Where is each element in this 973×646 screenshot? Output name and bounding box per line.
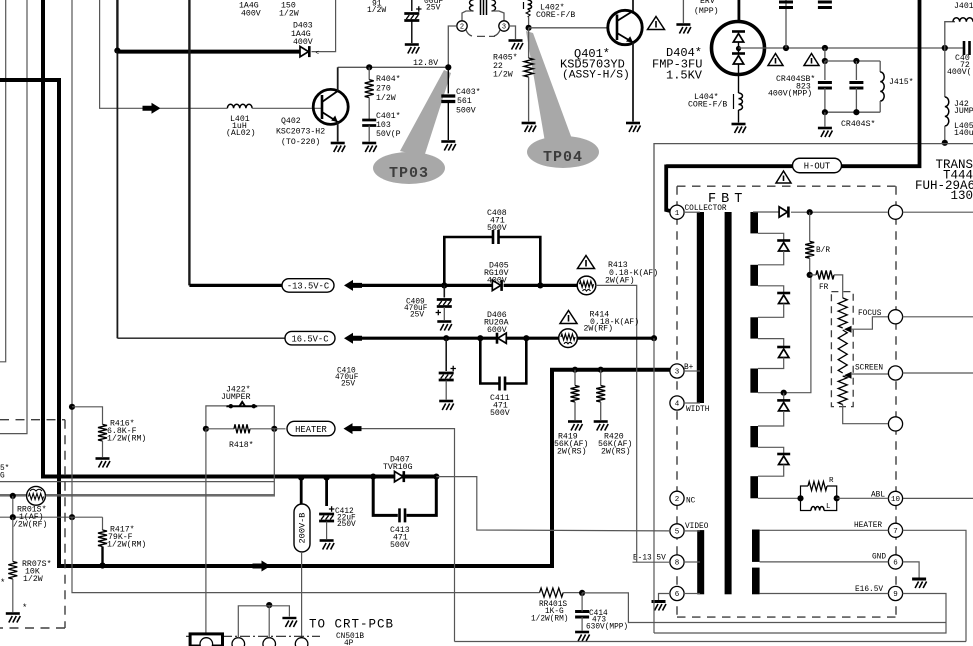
capacitor C401 [362,120,376,126]
wire EHT output line [739,47,965,49]
wire to R418 [206,428,234,430]
svg-text:400V: 400V [293,38,313,47]
wire C411 right leg (thick) [505,338,526,383]
arrow HEATER [344,423,362,434]
svg-text:R404*: R404* [376,74,401,84]
wire E16.5V return [582,593,946,623]
FBT secondary winding segment 5 [750,426,758,447]
wire heater loop right [903,530,967,641]
wire to R420 [600,370,602,386]
pin 7 HEATER [888,523,902,537]
svg-text:C401*: C401* [376,111,401,121]
wire R419 to ground [574,402,576,420]
wire R420 to ground [600,402,602,420]
svg-text:TVR10G: TVR10G [383,463,413,472]
svg-text:25V: 25V [341,381,355,389]
wire H-OUT to pin1 [666,165,670,212]
svg-text:7: 7 [893,528,898,536]
wire D403 cathode up [312,0,336,52]
wire 12V feed (thick) to D403 [117,50,300,54]
svg-text:561: 561 [457,97,472,106]
wire RR07S to ground [12,579,14,612]
svg-text:CORE-F/B: CORE-F/B [688,100,727,110]
wire R404 to C401 [368,98,370,119]
svg-text:-13.5V-C: -13.5V-C [287,282,329,292]
capacitor C413 [400,508,406,522]
wire B+ rail (thick) [0,80,670,566]
wire D-c to seg4 [758,358,784,369]
pin 8 FBT [670,555,684,569]
wire rail R416-R417 [71,407,73,517]
wire C412 to ground [326,522,328,540]
screen wiper arrow [844,372,852,379]
junction C414 [579,590,585,596]
wire GND pin to ground [903,562,920,578]
resistor R417 [98,530,107,547]
svg-text:1/2W: 1/2W [23,574,43,584]
capacitor C409 [436,300,452,316]
inductor L402 [523,2,525,9]
net label 16.5V-C [285,331,335,345]
warning triangle Q401 [648,17,665,30]
junction connector [266,602,272,608]
svg-text:400V(: 400V( [947,67,972,77]
pin 2 FBT [670,491,684,505]
wire to B/R [809,212,811,241]
svg-text:R418*: R418* [229,440,254,450]
resistor R419 [571,386,580,403]
diode D405 [492,280,501,291]
ground C410 [439,401,454,410]
ground C403 [441,142,456,151]
ground R416 [96,459,111,468]
wire node to R405 [528,28,530,58]
ground Q401 emitter [626,123,641,132]
wire to J401 [945,22,955,48]
wire connector to ground [269,606,289,617]
wire rail to R416 [71,0,73,407]
svg-text:*: * [0,578,5,588]
wire heater return to RR01S [0,429,274,495]
junction R404 top [366,64,372,70]
diode D403 [300,46,309,57]
warning triangle H-OUT [776,171,791,183]
wire VIDEO to pin5 [436,477,670,531]
wire heater tap [760,529,889,531]
junction J401 node [942,45,948,51]
capacitor top-b [818,2,832,8]
svg-text:500V: 500V [456,107,476,116]
pin FOCUS [888,310,902,324]
wire pin8 E-13.5V [633,561,671,563]
fusible resistor R414 [559,329,578,348]
junction R417 top [69,514,75,520]
junction C409/C408 [441,282,447,288]
wire heater loop bottom [455,641,967,643]
svg-text:500V: 500V [487,224,507,233]
FBT secondary winding segment 2 [750,265,758,286]
junction R418 left [203,426,209,432]
resistor RR401S [540,588,564,597]
connector pin 1 [200,638,213,646]
FBT core [725,212,732,594]
pin 6 FBT [670,586,684,600]
wire R418 to pill [250,428,286,430]
junction TP03 / C403 [445,64,451,70]
wire 200V-B feed rail (thick) [43,0,436,477]
svg-text:3: 3 [502,24,506,32]
wire to C412 [325,478,328,506]
svg-text:200V-B: 200V-B [298,513,308,544]
wire pin3 to winding [492,11,505,22]
wire e16.5 tap [760,593,889,595]
wire 16.5V row right (thick) [506,337,558,340]
wire seg2-seg3 tap [758,286,784,293]
svg-text:E16.5V: E16.5V [855,586,883,594]
wire to C409 [443,285,445,297]
svg-text:8: 8 [675,560,680,568]
inductor L (ABL filter) [801,498,812,510]
wire D407 cathode (thick) [406,475,436,478]
ground GND pin [912,579,927,588]
FBT primary winding bar [697,212,704,403]
junction CR404 bottom-a [822,109,828,115]
wire pin9 loop [654,594,946,634]
capacitor CR404S [849,83,863,89]
warning triangle EHT-2 [804,54,819,66]
wire to EHT pin [791,211,888,213]
pin 1 FBT [670,205,684,219]
wire to C410 [445,338,447,371]
ground ERV [676,25,691,34]
capacitor CR404SB [818,83,832,89]
junction FR node [807,272,813,278]
svg-text:R405*: R405* [493,53,518,63]
resistor R420 [596,386,605,403]
svg-text:B/R: B/R [816,247,830,255]
FBT dashed outline [677,186,896,617]
junction 200V-B [298,475,304,481]
resistor B/R [805,241,814,258]
wire pin3 to winding [684,370,700,372]
svg-text:2W(RS): 2W(RS) [601,447,630,457]
svg-text:NC: NC [686,498,696,506]
svg-text:R: R [829,477,834,485]
ground R419 [568,422,583,431]
wire 12.8V to C403 [447,67,449,93]
wire L401 to Q402 base [252,107,322,109]
junction RR01S-a [10,493,16,499]
wire Q401 emitter [632,43,634,122]
transformer T401 core [481,0,487,15]
ground pin6 [652,602,667,611]
junction C410 [443,335,449,341]
wire Q402 collector [337,67,339,91]
wire C413 right leg (thick) [407,477,437,516]
FBT heater winding segment a [752,530,760,562]
FBT secondary winding segment 6 [750,476,758,498]
arrow 16.5V [344,333,362,344]
svg-text:6: 6 [893,560,898,568]
capacitor top-a [785,0,787,48]
junction C412 [324,475,330,481]
resistor FR [816,270,834,279]
pin 6 GND [888,555,902,569]
junction 12V rail [114,48,120,54]
wire D-e to seg6 [758,465,784,477]
junction D404 tap [736,46,741,51]
FBT secondary winding segment 1 [750,212,758,233]
svg-text:2W(RF): 2W(RF) [584,324,613,334]
ground RR07S [6,614,20,623]
svg-text:103: 103 [376,121,391,130]
wire D-a to seg2 [758,251,784,265]
svg-text:H-OUT: H-OUT [804,162,830,172]
wire D-b to seg3 [758,304,784,318]
wire H.DRIVE input [100,0,143,108]
capacitor C410 [439,366,456,380]
pin 10 ABL [888,491,902,505]
wire arrow to L401 [160,107,227,109]
svg-text:(MPP): (MPP) [694,6,719,16]
junction D407 right [433,474,439,480]
svg-text:400V(MPP): 400V(MPP) [768,89,812,99]
junction E16.5 rail top [942,140,948,146]
wire to R419 [574,370,576,386]
svg-text:1/2W: 1/2W [493,70,513,80]
wire C403 to ground [447,102,449,140]
svg-text:140u: 140u [954,129,973,138]
wire L402 to node [528,17,530,28]
ground Q402 emitter [331,143,346,152]
connector pin 4 [295,638,308,646]
svg-text:HEATER: HEATER [854,522,882,530]
junction D407 left [370,474,376,480]
wire rail tail [653,338,655,633]
wire ABL out [903,497,973,499]
pin SCREEN [888,366,902,380]
svg-text:4P: 4P [344,640,354,646]
junction CR404 bottom-b [853,109,859,115]
svg-text:9: 9 [893,591,898,599]
transistor Q401 [608,10,642,44]
inductor L405 / J421 [945,97,949,126]
wire EHT to D404 [738,0,741,22]
wire to CR404SB node [824,48,826,61]
wire into C414 [581,593,583,612]
wire RR401S to C414 [563,592,582,594]
dashed shield T401 [466,30,500,36]
ground R420 [594,422,609,431]
wire CR404S to bottom [855,88,857,112]
svg-text:FOCUS: FOCUS [858,310,882,318]
wire FR to pot [834,275,843,298]
ground connector [282,618,297,627]
wire pot bottom [843,405,888,424]
ground CR404 [818,128,833,137]
fusible resistor RR01S [27,486,46,505]
wire 12V rail to 16.5V row [116,51,118,339]
net label 200V-B [294,504,310,552]
svg-text:10: 10 [891,496,901,504]
inductor L401 [227,104,252,108]
pin 3 T401 [499,21,509,32]
wire J401 node to L405 [944,48,946,97]
wire -13.5V row left (thick) [189,284,285,287]
wire SCREEN out [903,372,973,374]
junction RR07S top [10,514,16,520]
svg-text:1/2W(RM): 1/2W(RM) [107,434,146,444]
wire CRT return [72,517,540,592]
resistor focus pot upper [838,298,847,328]
focus wiper arrow [844,326,852,333]
svg-text:16.5V-C: 16.5V-C [292,334,329,344]
svg-text:JUMP: JUMP [954,107,973,116]
wire left rail B [0,0,27,434]
wire C414 to ground [581,617,583,631]
resistor RR07S [8,562,17,580]
wire R417 to bus [101,547,103,566]
svg-text:GND: GND [872,554,886,562]
svg-text:25V: 25V [410,312,424,320]
wire -13.5V row mid (thick) [362,284,492,287]
svg-text:KSC2073-H2: KSC2073-H2 [276,128,325,137]
wire FR left [810,274,816,276]
connector pin 2 [232,638,245,646]
svg-text:2W(RS): 2W(RS) [557,447,586,457]
svg-text:600V: 600V [487,326,507,335]
diode FBT D-a [777,241,790,252]
wire R414 to E16.5 rail (thick) [578,337,654,340]
wire pin4 to winding [684,402,700,404]
svg-text:2W(AF): 2W(AF) [605,276,634,286]
wire left rail A [0,0,6,362]
junction C411 right [523,335,529,341]
wire to RR07S [12,517,14,561]
wire seg1-seg2 tap [758,233,784,240]
wire RR01S row left [0,495,27,497]
wire abl tap [758,497,801,499]
svg-text:*: * [22,603,27,613]
wire CR404SB to bottom [824,88,826,112]
svg-text:2: 2 [675,496,680,504]
wire into CR404SB [824,61,826,80]
diode FBT D-e [777,454,790,465]
wire CR404 to ground [824,112,826,126]
jumper J415 [879,61,881,72]
wire 12.8V node [338,66,449,68]
diode block D404 [712,22,765,75]
svg-text:130: 130 [950,189,973,203]
pin 5 FBT [670,524,684,538]
wire pin1 to winding [684,211,700,213]
svg-text:250V: 250V [337,521,356,529]
svg-text:J401: J401 [954,2,973,11]
svg-text:(ASSY-H/S): (ASSY-H/S) [562,70,630,82]
wire pin5 to winding [684,530,700,532]
svg-text:50V(P: 50V(P [376,129,401,139]
svg-text:1/2W: 1/2W [279,9,299,19]
wire CR404 top link [825,60,880,62]
wire E16.5V rail [654,144,973,339]
ground pin3 [509,41,524,50]
svg-text:500V: 500V [490,409,510,418]
diode D406 [497,333,506,344]
resistor focus pot lower [838,376,847,405]
junction CR404SB-b [822,45,828,51]
wire C408 left leg (thick) [444,237,493,285]
svg-text:12.8V: 12.8V [413,58,438,68]
wire RR01S to RR07S [12,496,14,517]
fusible resistor R413 [577,276,596,295]
wire to ABL pin [837,497,889,499]
ground L404 [732,124,747,133]
capacitor C411 [500,377,506,391]
FBT secondary winding segment 3 [750,317,758,338]
warning triangle R414 [560,311,577,324]
ground C412 [320,541,335,550]
resistor R404 [365,80,374,98]
wire seg3-seg4 tap [758,339,784,347]
wire pin6 to winding [684,593,700,595]
svg-text:5: 5 [675,529,680,537]
wire RR01S row right [45,495,275,497]
junction C411 left [477,335,483,341]
junction seg4 tap [781,390,787,396]
FBT aux winding bar (pins 5/8/6) [697,530,704,594]
diode D404 lower [732,54,745,65]
svg-text:400V: 400V [241,10,261,19]
wire to 200V-B pill [300,478,303,504]
svg-text:E-13.5V: E-13.5V [633,555,666,563]
svg-text:2: 2 [460,24,464,32]
ground R405 [522,123,537,132]
wire seg5-seg6 tap [758,447,784,454]
wire D407 anode (thick) [373,475,394,478]
wire J422 right [257,406,274,429]
pin 3 FBT [670,364,684,378]
pin 4 FBT [670,396,684,410]
jumper J401 [953,18,973,22]
junction R420 [598,367,604,373]
svg-text:4: 4 [675,401,680,409]
svg-text:ERV: ERV [700,0,715,6]
junction CR404S top [853,58,859,64]
wire D-d to seg5 [758,411,784,426]
test point TP03 balloon [373,70,451,184]
wire gnd tap [760,561,889,563]
wire 200V-B to connector [301,552,303,638]
FBT heater winding segment b [752,568,760,595]
wire Q401 collector [632,0,634,11]
wire tap to D-d [783,393,785,401]
wire pin2 to 12.8V node [448,26,457,67]
svg-text:Q402: Q402 [281,117,301,126]
wire pin3 to ground [509,26,515,39]
wire heater loop left [362,429,455,642]
junction TP04 node [526,25,532,31]
test point TP04 balloon [526,31,599,168]
net label -13.5V-C [282,279,334,293]
wire pin6 to ground [659,594,671,601]
diode D407 [395,471,404,482]
wire into CR404S [855,61,857,80]
ground C401 [362,143,377,152]
wire D404 to L404 [738,65,740,94]
wire seg4 tap to FR rail [758,275,811,393]
transistor Q402 [313,89,348,124]
warning triangle EHT-1 [768,54,783,66]
